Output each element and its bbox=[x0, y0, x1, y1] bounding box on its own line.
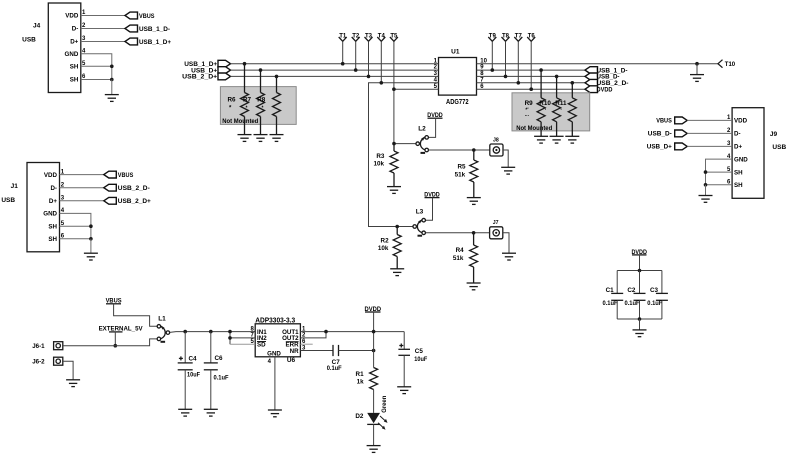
wire J4 SH pin5 bbox=[81, 65, 112, 67]
svg-text:VBUS: VBUS bbox=[139, 13, 155, 20]
svg-text:D+: D+ bbox=[70, 39, 78, 46]
junction J1 pin5 bbox=[89, 224, 93, 228]
svg-text:VDD: VDD bbox=[734, 118, 748, 125]
label J4 USB bbox=[22, 37, 36, 44]
resistor R3 bbox=[390, 144, 398, 187]
wire J1 SH pin6 bbox=[60, 238, 91, 240]
wire DVDD stem bbox=[373, 312, 375, 351]
power label DVDD (U6 out) bbox=[365, 306, 382, 313]
junction R11 bbox=[571, 81, 575, 85]
junction T8 bbox=[504, 75, 508, 79]
label ADP3303-3.3 bbox=[255, 318, 295, 325]
junction T1 bbox=[341, 62, 345, 66]
svg-text:VBUS: VBUS bbox=[656, 118, 672, 125]
wire J7 gnd bbox=[503, 233, 509, 253]
ground J4 bbox=[105, 95, 119, 102]
resistor R8 bbox=[273, 93, 281, 117]
svg-text:VBUS: VBUS bbox=[118, 172, 134, 179]
label C7 bbox=[327, 359, 342, 372]
svg-text:J6-2: J6-2 bbox=[32, 359, 45, 366]
junction IN1 bbox=[228, 330, 232, 334]
wire row1 USB_1_D+ bbox=[231, 63, 439, 65]
svg-text:GND: GND bbox=[734, 156, 748, 163]
capacitor C2 bbox=[634, 271, 646, 320]
svg-text:L1: L1 bbox=[158, 315, 166, 322]
connector J7 bbox=[490, 220, 503, 239]
wire cap top rail bbox=[617, 270, 662, 272]
ground D2 bbox=[367, 446, 381, 453]
svg-text:': ' bbox=[561, 109, 562, 115]
svg-text:USB: USB bbox=[772, 144, 786, 151]
net tag USB_2_D- (bus) bbox=[585, 79, 629, 87]
wire OUT2 tie bbox=[300, 332, 326, 338]
ground J9 bbox=[699, 196, 713, 203]
svg-text:DVDD: DVDD bbox=[597, 87, 613, 94]
svg-text:D-: D- bbox=[50, 185, 57, 192]
label J1 bbox=[11, 183, 19, 190]
label EXTERNAL_5V bbox=[99, 325, 144, 332]
net tag USB_1_D- (bus) bbox=[585, 67, 628, 75]
resistor R2 bbox=[393, 227, 401, 269]
net tag VBUS (J1.1) bbox=[104, 171, 134, 179]
ground U6 bbox=[268, 410, 282, 417]
wire row4 to L3 bbox=[369, 83, 439, 227]
resistor R10 bbox=[553, 98, 561, 122]
wire U6 SD bbox=[230, 343, 255, 345]
wire J4 SH pin6 bbox=[81, 79, 112, 81]
junction J4 pin5 bbox=[110, 65, 114, 69]
wire L1 out bbox=[170, 331, 255, 334]
wire J9 gnd stem bbox=[705, 185, 707, 196]
svg-text:10uF: 10uF bbox=[414, 356, 427, 363]
svg-text:0.1uF: 0.1uF bbox=[214, 374, 229, 381]
test point T1 bbox=[339, 33, 347, 63]
test point T3 bbox=[365, 33, 373, 76]
net tag USB_2_D+ (J1.3) bbox=[104, 197, 151, 205]
label C6 bbox=[214, 355, 229, 381]
LED D2 bbox=[367, 413, 380, 446]
net tag USB_2_D+ (bus) bbox=[182, 73, 230, 81]
label R5 bbox=[455, 163, 466, 178]
capacitor C3 bbox=[656, 271, 668, 320]
net tag USB_1_D+ (bus) bbox=[184, 60, 230, 68]
junction T2 bbox=[354, 68, 358, 72]
ground R11 bbox=[565, 136, 579, 143]
svg-text:SH: SH bbox=[70, 77, 79, 84]
wire T10 gnd stem bbox=[696, 64, 698, 75]
svg-text:...: ... bbox=[525, 112, 530, 118]
wire J1 SH pin5 bbox=[60, 225, 91, 227]
wire J4 gnd stem bbox=[111, 80, 113, 95]
junction T4 bbox=[380, 81, 384, 85]
svg-text:T7: T7 bbox=[515, 33, 523, 39]
wire J4 pin3 bbox=[81, 41, 125, 43]
wire J9 pin3 bbox=[687, 145, 732, 147]
pin numbers U6 left bbox=[250, 326, 254, 345]
junction IN2 bbox=[228, 336, 232, 340]
power label VBUS bbox=[106, 298, 123, 305]
svg-text:C2: C2 bbox=[627, 287, 636, 294]
wire EXTERNAL_5V stem bbox=[114, 332, 116, 346]
connector J9 bbox=[727, 108, 764, 199]
svg-text:L2: L2 bbox=[418, 126, 426, 133]
power label DVDD (L3) bbox=[424, 192, 440, 199]
svg-text:R10: R10 bbox=[539, 100, 551, 107]
wire J6-2 gnd bbox=[63, 361, 73, 380]
svg-text:SH: SH bbox=[734, 169, 743, 176]
svg-text:VDD: VDD bbox=[65, 13, 79, 20]
svg-text:R2: R2 bbox=[381, 238, 390, 245]
svg-text:T2: T2 bbox=[352, 33, 360, 39]
connector J8 bbox=[490, 137, 503, 156]
svg-text:GND: GND bbox=[43, 211, 57, 218]
wire U6 gnd stem bbox=[274, 357, 276, 410]
switch L3 bbox=[413, 209, 426, 236]
test point T9 bbox=[488, 33, 496, 70]
wire J4 pin1 bbox=[81, 15, 125, 17]
svg-text:SH: SH bbox=[48, 223, 57, 230]
label C1 bbox=[603, 287, 618, 307]
label R9 bbox=[525, 100, 534, 118]
label J9 bbox=[770, 131, 778, 138]
net tag USB_1_D- (J4.2) bbox=[125, 25, 170, 33]
svg-text:SH: SH bbox=[70, 64, 79, 71]
svg-text:R3: R3 bbox=[376, 153, 385, 160]
ground R2 bbox=[390, 269, 404, 276]
wire row3 USB_2_D+ bbox=[231, 75, 439, 77]
label C3 bbox=[647, 287, 662, 307]
svg-text:10k: 10k bbox=[373, 161, 384, 168]
test point T4 bbox=[377, 33, 385, 82]
connector J6-1 bbox=[54, 342, 63, 350]
svg-text:SD: SD bbox=[257, 342, 266, 349]
svg-text:J1: J1 bbox=[11, 183, 19, 190]
svg-text:J8: J8 bbox=[493, 137, 499, 143]
svg-text:J6-1: J6-1 bbox=[32, 343, 45, 350]
svg-text:R4: R4 bbox=[456, 247, 465, 254]
wire row9 bbox=[477, 69, 586, 71]
ground J6-2 bbox=[66, 380, 80, 387]
wire NR bbox=[300, 350, 333, 352]
wire J1 pin1 bbox=[60, 174, 104, 176]
svg-text:C1: C1 bbox=[606, 287, 615, 294]
svg-text:0.1uF: 0.1uF bbox=[647, 301, 662, 307]
svg-text:USB_D+: USB_D+ bbox=[647, 144, 672, 151]
svg-text:R7: R7 bbox=[243, 97, 252, 104]
label R2 bbox=[378, 238, 389, 253]
junction DVDD/OUT1 bbox=[372, 330, 376, 334]
wire row7 bbox=[477, 82, 586, 84]
svg-text:GND: GND bbox=[65, 51, 79, 58]
ground R6 bbox=[238, 135, 252, 142]
junction R8 bbox=[275, 75, 279, 79]
junction T9 bbox=[491, 68, 495, 72]
wire OUT1 bbox=[300, 331, 404, 333]
wire row5 to L2 bbox=[394, 88, 439, 90]
label R8 bbox=[257, 97, 266, 112]
wire T5 vertical to R3/L2 bbox=[394, 41, 416, 143]
svg-text:USB_2_D+: USB_2_D+ bbox=[182, 74, 217, 81]
junction R10 bbox=[555, 75, 559, 79]
svg-text:': ' bbox=[545, 109, 546, 115]
resistor R5 bbox=[470, 150, 478, 198]
svg-text:USB_2_D-: USB_2_D- bbox=[118, 185, 150, 192]
net tag VBUS (J4.1) bbox=[125, 12, 155, 20]
label J1 USB bbox=[1, 197, 15, 204]
svg-text:T10: T10 bbox=[725, 62, 736, 68]
svg-text:*: * bbox=[246, 106, 248, 112]
svg-text:C6: C6 bbox=[215, 355, 224, 362]
junction R9 bbox=[539, 68, 543, 72]
label R3 bbox=[373, 153, 384, 168]
junction EXTERNAL_5V bbox=[114, 344, 118, 348]
ground C5 bbox=[397, 387, 411, 394]
wire R9 top bbox=[540, 70, 542, 98]
wire L3 out bbox=[426, 232, 490, 234]
ground R5 bbox=[467, 198, 481, 205]
wire J8 gnd bbox=[503, 150, 508, 167]
junction T10 gnd bbox=[695, 62, 699, 66]
junction J1 pin6 bbox=[89, 237, 93, 241]
label U1 bbox=[451, 49, 460, 56]
net tag USB_D+ (J9.3) bbox=[647, 143, 687, 151]
label R6 bbox=[228, 97, 237, 112]
resistor R6 bbox=[241, 93, 249, 117]
label R7 bbox=[243, 97, 252, 112]
svg-text:T5: T5 bbox=[390, 33, 398, 39]
op-amp U1 ADG772 bbox=[434, 58, 488, 96]
wire ERR stub bbox=[300, 343, 312, 345]
junction cap rail top bbox=[638, 269, 642, 273]
ground J1 bbox=[84, 253, 98, 260]
svg-text:T9: T9 bbox=[489, 33, 497, 39]
not-mounted box right bbox=[512, 93, 590, 132]
svg-text:D+: D+ bbox=[734, 144, 742, 151]
label R4 bbox=[453, 247, 464, 262]
connector J1 bbox=[27, 163, 65, 252]
ground J7 bbox=[502, 253, 516, 260]
wire DVDD to L2 throw bbox=[429, 118, 436, 137]
junction R4 node bbox=[472, 231, 476, 235]
connector J4 bbox=[48, 3, 86, 93]
svg-text:C3: C3 bbox=[650, 287, 659, 294]
wire J1 GND pin4 bbox=[60, 213, 91, 238]
wire cap gnd stem bbox=[639, 319, 641, 330]
label D2 bbox=[355, 413, 364, 420]
wire J9 pin2 bbox=[687, 132, 732, 134]
label C4 bbox=[187, 356, 200, 379]
svg-text:0.1uF: 0.1uF bbox=[603, 301, 618, 307]
junction R3 node bbox=[392, 142, 396, 146]
resistor R11 bbox=[568, 98, 576, 122]
wire VBUS to L1 throw bbox=[114, 304, 158, 327]
junction T5 row5 bbox=[392, 87, 396, 91]
label R10 bbox=[539, 100, 551, 114]
wire R11 top bbox=[571, 83, 573, 98]
svg-text:C5: C5 bbox=[415, 348, 424, 355]
label C5 bbox=[414, 348, 427, 363]
resistor R1 bbox=[370, 351, 378, 413]
wire R11 bottom bbox=[571, 122, 573, 137]
label R11 bbox=[555, 100, 567, 114]
ground R10 bbox=[550, 136, 564, 143]
wire R7 top bbox=[260, 70, 262, 92]
ground R8 bbox=[270, 135, 284, 142]
label U6 bbox=[287, 357, 296, 364]
junction OUT2 bbox=[324, 330, 328, 334]
wire DVDD to cap rail bbox=[639, 255, 641, 271]
junction C7 out bbox=[372, 349, 376, 353]
pin numbers U6 right bbox=[302, 326, 306, 351]
connector J6-2 bbox=[54, 357, 63, 365]
wire J6-1 to L1 bbox=[63, 339, 157, 346]
svg-text:*: * bbox=[262, 106, 264, 112]
svg-text:51k: 51k bbox=[453, 255, 464, 262]
wire R8 top bbox=[276, 76, 278, 92]
wire U6 in tie bbox=[230, 332, 255, 345]
svg-text:USB_D-: USB_D- bbox=[648, 131, 672, 138]
svg-text:J9: J9 bbox=[770, 131, 778, 138]
power label DVDD (L2) bbox=[427, 112, 443, 119]
capacitor C1 bbox=[611, 271, 623, 320]
svg-text:SH: SH bbox=[48, 236, 57, 243]
pin number U6 gnd 4 bbox=[268, 359, 272, 365]
switch L2 bbox=[416, 126, 429, 153]
wire J9 SH pin5 bbox=[706, 171, 733, 173]
label Green bbox=[381, 396, 388, 413]
ground C4 bbox=[178, 409, 192, 416]
net tag USB_D- (J9.2) bbox=[648, 130, 687, 138]
junction C6 bbox=[209, 330, 213, 334]
test point T10 bbox=[718, 60, 736, 68]
net tag USB_D- (bus) bbox=[585, 73, 620, 81]
svg-text:D-: D- bbox=[72, 26, 79, 33]
test point T7 bbox=[514, 33, 522, 82]
junction J4 pin6 bbox=[110, 78, 114, 82]
resistor R7 bbox=[257, 93, 265, 117]
net tag USB_1_D+ (J4.3) bbox=[125, 38, 171, 46]
switch L1 bbox=[157, 315, 170, 342]
net tag DVDD (bus) bbox=[585, 86, 613, 94]
wire J1 pin2 bbox=[60, 187, 104, 189]
test point T6 bbox=[527, 33, 535, 89]
ground R3 bbox=[387, 187, 401, 194]
LED D2 arrows bbox=[378, 416, 388, 430]
svg-text:Green: Green bbox=[381, 396, 388, 413]
junction T3 bbox=[367, 75, 371, 79]
ground R7 bbox=[254, 135, 268, 142]
svg-text:T8: T8 bbox=[502, 33, 510, 39]
ground R9 bbox=[534, 136, 548, 143]
svg-text:ADP3303-3.3: ADP3303-3.3 bbox=[255, 318, 295, 325]
junction cap rail bottom bbox=[638, 317, 642, 321]
svg-text:J7: J7 bbox=[493, 220, 499, 226]
svg-text:ADG772: ADG772 bbox=[446, 99, 469, 106]
wire row2 USB_D+ bbox=[231, 69, 439, 71]
label ADG772 bbox=[446, 99, 469, 106]
label J4 bbox=[33, 23, 41, 30]
label J6-2 bbox=[32, 359, 45, 366]
test point T2 bbox=[352, 33, 360, 70]
svg-text:R8: R8 bbox=[257, 97, 266, 104]
svg-text:USB: USB bbox=[1, 197, 15, 204]
ground caps bbox=[633, 330, 647, 337]
svg-text:L3: L3 bbox=[416, 209, 424, 216]
svg-text:USB_2_D+: USB_2_D+ bbox=[118, 198, 151, 205]
junction R5 node bbox=[472, 148, 476, 152]
svg-text:T6: T6 bbox=[528, 33, 536, 39]
net tag USB_D+ (bus) bbox=[191, 67, 230, 75]
net tag VBUS (J9.1) bbox=[656, 117, 687, 125]
junction T6 bbox=[529, 87, 533, 91]
svg-text:NR: NR bbox=[290, 348, 299, 355]
svg-text:GND: GND bbox=[267, 351, 281, 358]
svg-text:T4: T4 bbox=[378, 33, 386, 39]
test point T8 bbox=[502, 33, 510, 76]
ground C6 bbox=[204, 409, 218, 416]
wire R10 bottom bbox=[556, 122, 558, 137]
svg-text:SH: SH bbox=[734, 182, 743, 189]
svg-text:C4: C4 bbox=[189, 356, 198, 363]
junction C4 bbox=[183, 330, 187, 334]
svg-text:J4: J4 bbox=[33, 23, 41, 30]
junction J9 pin6 bbox=[704, 183, 708, 187]
svg-text:R9: R9 bbox=[525, 100, 534, 107]
wire R9 bottom bbox=[540, 122, 542, 137]
wire R7 bottom bbox=[260, 117, 262, 135]
label R1 bbox=[356, 371, 365, 386]
wire J4 pin2 bbox=[81, 28, 125, 30]
svg-text:USB_1_D-: USB_1_D- bbox=[139, 26, 170, 33]
regulator U6 ADP3303-3.3 bbox=[255, 324, 300, 358]
wire cap bottom rail bbox=[617, 318, 662, 320]
svg-text:R6: R6 bbox=[228, 97, 237, 104]
svg-text:R5: R5 bbox=[457, 163, 466, 170]
ground R4 bbox=[467, 283, 481, 290]
svg-text:10k: 10k bbox=[378, 245, 389, 252]
svg-text:0.1uF: 0.1uF bbox=[327, 365, 342, 372]
wire row6 bbox=[477, 88, 586, 90]
label C2 bbox=[625, 287, 640, 307]
wire J4 GND pin4 bbox=[81, 54, 112, 80]
wire J9 SH pin6 bbox=[706, 184, 733, 186]
junction T7 bbox=[517, 81, 521, 85]
svg-text:1k: 1k bbox=[357, 378, 365, 385]
svg-text:USB: USB bbox=[22, 37, 36, 44]
wire L2 out bbox=[429, 149, 490, 151]
resistor R4 bbox=[470, 233, 478, 283]
svg-text:USB_1_D+: USB_1_D+ bbox=[139, 39, 171, 46]
not-mounted box left bbox=[220, 87, 296, 125]
svg-text:0.1uF: 0.1uF bbox=[625, 301, 640, 307]
svg-text:U1: U1 bbox=[451, 49, 460, 56]
wire J1 pin3 bbox=[60, 200, 104, 202]
wire R6 top bbox=[244, 64, 246, 93]
test point T5 bbox=[390, 33, 398, 41]
ground T10 bbox=[690, 75, 704, 82]
svg-text:D2: D2 bbox=[355, 413, 364, 420]
svg-text:VDD: VDD bbox=[44, 172, 58, 179]
svg-text:T1: T1 bbox=[339, 33, 347, 39]
junction R7 bbox=[259, 68, 263, 72]
wire R6 bottom bbox=[244, 117, 246, 135]
resistor R9 bbox=[537, 98, 545, 122]
wire R10 top bbox=[556, 76, 558, 97]
svg-text:D+: D+ bbox=[49, 198, 57, 205]
wire J9 pin1 bbox=[687, 119, 732, 121]
capacitor C5 bbox=[398, 332, 410, 387]
svg-text:D-: D- bbox=[734, 131, 741, 138]
